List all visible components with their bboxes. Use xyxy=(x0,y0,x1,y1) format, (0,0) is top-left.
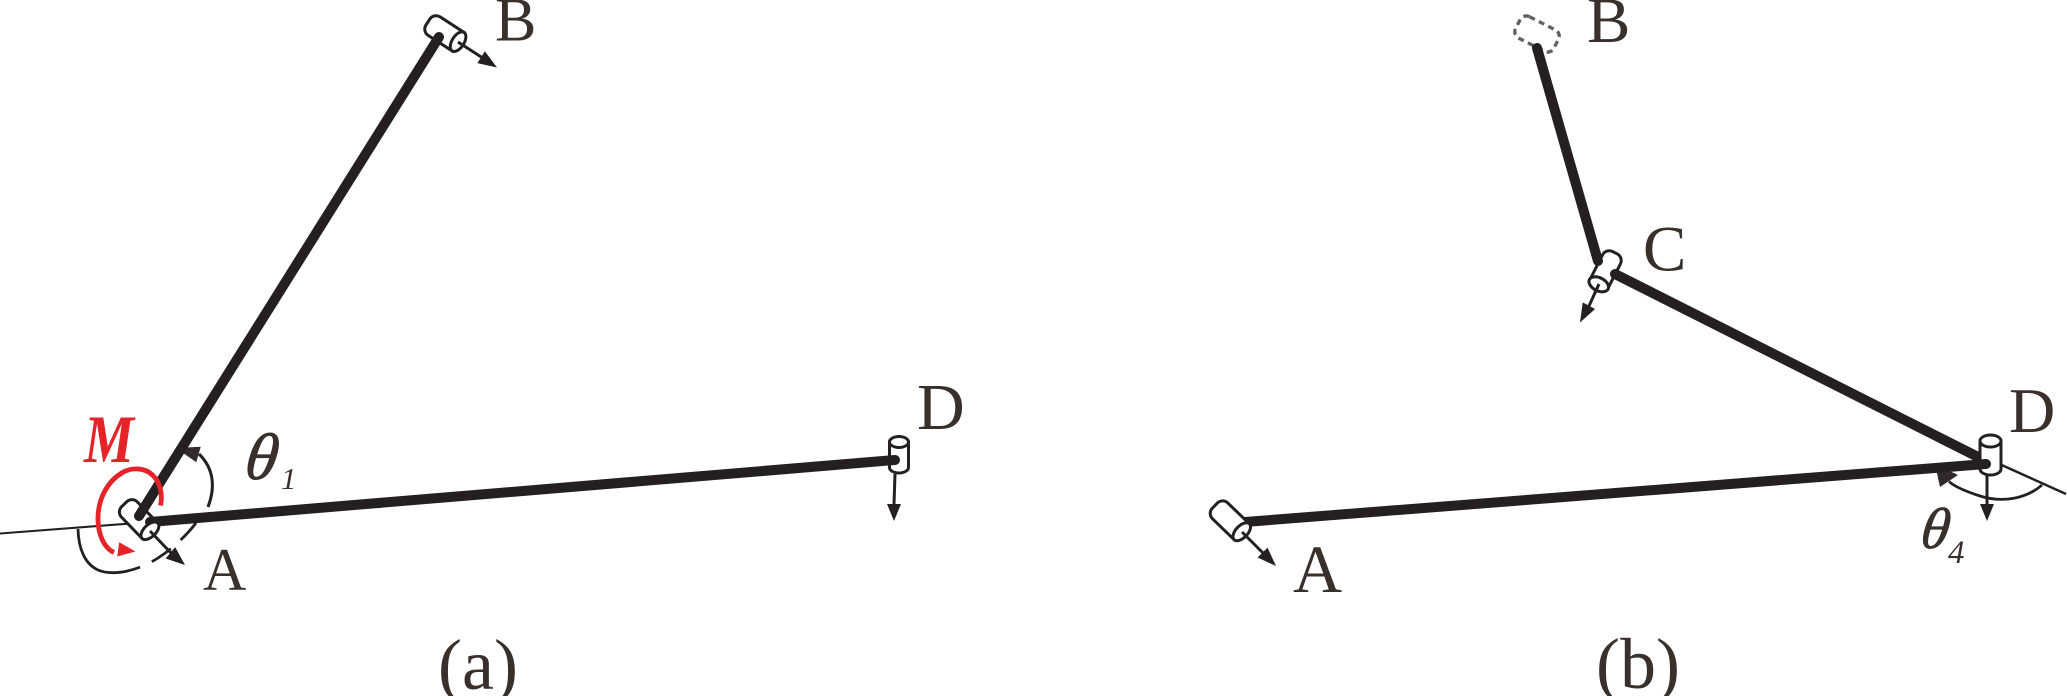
svg-text:(a): (a) xyxy=(438,625,518,696)
joint C axis arrow xyxy=(1589,284,1599,306)
joint A end-face ellipse xyxy=(138,519,162,543)
svg-text:A: A xyxy=(1293,531,1342,607)
label theta4 xyxy=(1917,496,1955,561)
link AB xyxy=(139,37,439,516)
ground reference line at D (b) xyxy=(1995,462,2066,494)
angle theta1 arc xyxy=(199,454,212,507)
angle theta4 arc xyxy=(1949,482,2042,500)
svg-text:M: M xyxy=(83,401,136,477)
svg-text:B: B xyxy=(495,0,536,55)
joint D(b) axis arrow xyxy=(1986,474,1989,504)
joint D(b) cylinder xyxy=(1980,435,2001,475)
label theta1 xyxy=(241,421,284,494)
revolute joint cylinder D (a) xyxy=(890,437,909,474)
svg-text:D: D xyxy=(917,371,965,444)
crank rotation dashed arc below A xyxy=(78,523,196,573)
joint cylinder C body xyxy=(1590,248,1624,288)
link BC xyxy=(1537,48,1598,261)
svg-text:1: 1 xyxy=(281,461,297,496)
joint cylinder B body xyxy=(422,13,464,51)
link AD xyxy=(150,460,895,522)
svg-text:B: B xyxy=(1587,0,1630,57)
joint B end-face ellipse xyxy=(447,29,469,54)
link AD (b) xyxy=(1245,464,1986,522)
joint C end-face ellipse xyxy=(1586,274,1611,295)
link CD xyxy=(1615,274,1984,460)
svg-text:(b): (b) xyxy=(1596,624,1680,696)
joint A axis arrow xyxy=(150,531,171,553)
svg-text:D: D xyxy=(2009,375,2055,446)
joint A(b) axis arrow xyxy=(1242,532,1263,553)
joint cylinder A (b) body xyxy=(1207,498,1249,540)
joint B axis arrow xyxy=(458,42,482,58)
joint A (b) end-face ellipse xyxy=(1230,520,1254,544)
ghost joint B dashed xyxy=(1512,14,1561,55)
moment M red arrow xyxy=(98,469,161,553)
ground reference line at A xyxy=(0,522,150,534)
svg-text:C: C xyxy=(1643,214,1686,286)
joint D(a) axis arrow xyxy=(894,474,895,504)
svg-text:θ: θ xyxy=(241,421,284,494)
svg-text:4: 4 xyxy=(1948,535,1965,571)
svg-text:A: A xyxy=(203,537,246,603)
angle theta4 arrowhead xyxy=(1935,464,1958,487)
angle theta1 arrowhead xyxy=(176,447,201,462)
joint cylinder A body xyxy=(116,497,158,539)
